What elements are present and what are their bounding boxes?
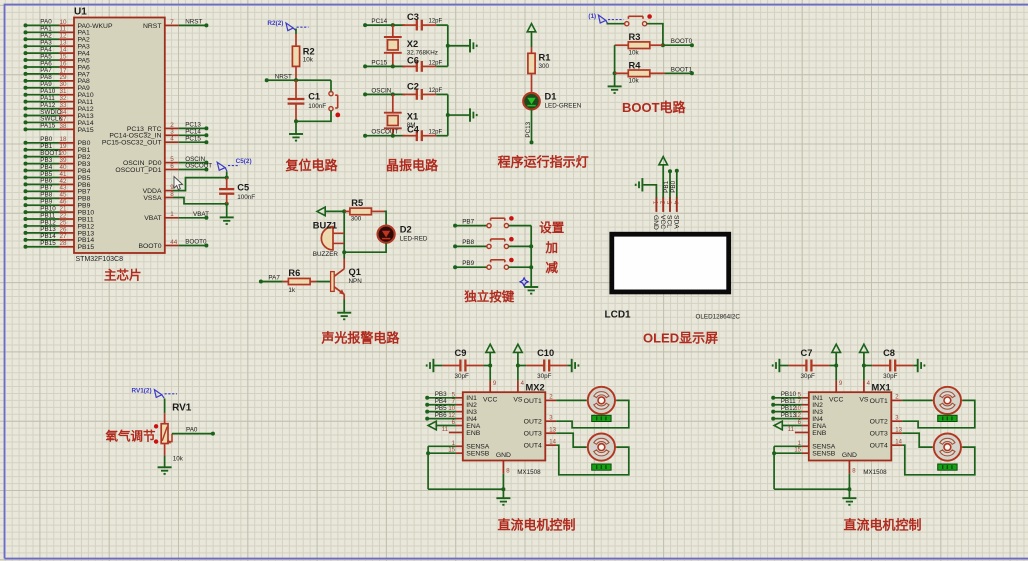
junction R4 left	[613, 71, 617, 75]
motor A (DC motor)	[586, 387, 616, 414]
ground below C5	[220, 216, 234, 218]
wire OLED GND pin to ground	[643, 185, 656, 199]
U1 pin 29 PA8 / wire net PA8	[24, 74, 91, 85]
MX2 pin 15 SENSB	[428, 448, 463, 454]
svg-text:15: 15	[448, 448, 455, 454]
MX2 pin 2 OUT1	[545, 395, 556, 401]
svg-text:BUZ1: BUZ1	[313, 220, 337, 230]
MX1 pin 1 SENSA	[774, 441, 809, 447]
wire VCC	[662, 165, 664, 199]
wire emitter to ground	[343, 300, 345, 313]
U1 pin 41 PB5 / wire net PB5	[24, 171, 91, 182]
wire GND pin down	[848, 474, 850, 499]
junction bus mid	[446, 44, 450, 48]
svg-text:7: 7	[170, 19, 174, 26]
capacitor C1 100nF	[288, 80, 327, 121]
U1 pin 38 PA15 / wire net PA15	[24, 123, 94, 134]
wire C5 to ground	[226, 204, 228, 218]
wire OUT1 to motor A	[556, 399, 586, 401]
svg-text:X2: X2	[407, 39, 418, 49]
svg-text:R2(2): R2(2)	[267, 20, 283, 27]
U1 pin 46 PB9 / wire net PB9	[24, 198, 91, 209]
junction crystal top	[391, 92, 395, 96]
wire key PB9 to bus	[509, 266, 532, 268]
wire OUT1 to motor A	[902, 399, 932, 401]
junction SENSB	[772, 451, 776, 455]
node SCL top	[668, 169, 672, 173]
LCD1 display body	[612, 234, 729, 292]
ground reset circuit	[289, 133, 303, 135]
svg-text:GND: GND	[496, 452, 511, 459]
svg-text:RV1: RV1	[172, 402, 192, 413]
ground alarm	[337, 312, 351, 314]
wire button bottom to C1 bottom	[296, 111, 331, 122]
svg-text:VCC: VCC	[829, 397, 843, 404]
svg-text:14: 14	[895, 439, 902, 445]
U1 pin 3 PC14-OSC32_IN / wire net PC14	[109, 129, 208, 140]
svg-text:VCC: VCC	[659, 215, 666, 229]
wire C right	[829, 365, 836, 367]
U1 pin 45 PB8 / wire net PB8	[24, 192, 91, 203]
ground left of C	[432, 359, 434, 372]
MX2 pin 3 OUT2	[545, 415, 556, 421]
svg-text:OUT4: OUT4	[870, 443, 888, 450]
power terminal left alarm	[317, 207, 325, 216]
svg-text:12pF: 12pF	[429, 130, 443, 136]
svg-text:ENB: ENB	[812, 430, 826, 437]
MX1 pin 4 VS	[864, 381, 871, 393]
MX2 pin 11 ENB stub	[442, 427, 463, 433]
svg-text:C3: C3	[407, 12, 419, 22]
blue marker artifact	[520, 278, 528, 286]
junction node R2/C1	[294, 78, 298, 82]
svg-text:SENSB: SENSB	[812, 451, 836, 458]
wire net PC14	[365, 24, 405, 26]
MX1 pin 3 OUT2	[891, 415, 902, 421]
wire RV1 to ground	[164, 455, 166, 467]
wire to ground reset	[295, 121, 297, 134]
wire GND pin down	[502, 474, 504, 499]
U1 pin 40 PB4 / wire net PB4	[24, 164, 91, 175]
svg-text:PB15: PB15	[78, 244, 95, 251]
svg-text:主芯片: 主芯片	[104, 268, 142, 283]
svg-text:10k: 10k	[629, 50, 640, 57]
svg-text:OUT4: OUT4	[524, 443, 542, 450]
wire SDA	[676, 171, 678, 199]
ground driver	[496, 497, 510, 499]
svg-text:10k: 10k	[303, 57, 314, 64]
svg-text:NRST: NRST	[185, 19, 202, 26]
wire C right-cap left	[518, 365, 526, 367]
pin names inside	[466, 395, 542, 459]
svg-text:NPN: NPN	[349, 278, 363, 285]
crystal X2	[384, 25, 438, 66]
wire C6 to bus	[436, 65, 448, 67]
svg-text:PC13: PC13	[525, 121, 532, 137]
svg-text:VCC: VCC	[483, 397, 497, 404]
U1 pin 44 BOOT0 / wire net BOOT0	[138, 239, 208, 250]
U1 pin 31 PA10 / wire net PA10	[24, 88, 94, 99]
svg-text:C10: C10	[537, 348, 554, 358]
wire PB9 to key	[455, 266, 487, 268]
wire left bus R3-R4-ground	[614, 45, 616, 86]
U1 pin 8 VSSA / wire to C5 bottom	[143, 191, 228, 206]
motor A indicator box	[938, 415, 957, 421]
motor A indicator box	[592, 415, 611, 421]
wire OUT2 to motor A return	[556, 400, 629, 427]
svg-text:(1): (1)	[588, 13, 596, 20]
push button reset (vertical)	[329, 92, 340, 118]
svg-text:PB0: PB0	[670, 180, 677, 192]
svg-text:OSCOUT_PD1: OSCOUT_PD1	[115, 167, 161, 174]
svg-text:LED-GREEN: LED-GREEN	[545, 103, 582, 110]
wire OUT3 to motor B	[556, 433, 586, 447]
resistor R4 10k	[615, 60, 665, 84]
svg-text:R4: R4	[629, 60, 642, 70]
ground RV1	[158, 466, 172, 468]
wire PB7 to key	[455, 225, 487, 227]
capacitor C8 30pF	[872, 348, 913, 380]
svg-text:VBAT: VBAT	[144, 215, 161, 222]
U1 pin 14 PA4 / wire net PA4	[24, 46, 91, 57]
wire OUT2 to motor A return	[902, 400, 975, 427]
wire R6 to Q1 base	[317, 281, 331, 283]
transistor Q1 NPN	[331, 259, 363, 300]
motor B indicator box	[938, 464, 957, 470]
wire C left	[433, 365, 442, 367]
svg-text:12pF: 12pF	[429, 88, 443, 94]
svg-text:晶振电路: 晶振电路	[386, 158, 439, 173]
svg-text:GND: GND	[652, 215, 659, 230]
svg-text:OUT2: OUT2	[524, 419, 542, 426]
svg-text:BOOT1: BOOT1	[671, 66, 693, 73]
svg-text:ENB: ENB	[466, 430, 480, 437]
U1 pin 19 PB1 / wire net PB1	[24, 143, 91, 154]
junction bus mid	[446, 113, 450, 117]
capacitor C7 30pF	[788, 348, 829, 380]
svg-text:1k: 1k	[288, 287, 296, 294]
junction crystal bottom	[391, 134, 395, 138]
junction R3 right	[661, 43, 665, 47]
svg-text:OSCOUT: OSCOUT	[185, 163, 212, 170]
svg-text:10k: 10k	[173, 456, 184, 463]
terminal RV1(2) default	[154, 390, 161, 398]
wire SCL	[669, 171, 671, 198]
wire power to R1	[531, 32, 533, 47]
svg-text:VS: VS	[859, 397, 869, 404]
wire OUT4 to motor B return	[902, 445, 975, 475]
svg-text:OLED显示屏: OLED显示屏	[643, 330, 718, 345]
svg-text:C4: C4	[407, 125, 420, 135]
capacitor C9 30pF	[442, 348, 483, 380]
resistor R3 10k	[615, 32, 663, 56]
ground driver	[842, 497, 856, 499]
MX1 pin 9 VCC	[836, 381, 843, 393]
svg-text:LED-RED: LED-RED	[400, 235, 428, 242]
ground right of C	[571, 359, 573, 372]
junction VCC/C-left	[834, 364, 838, 368]
svg-text:4: 4	[170, 136, 174, 143]
svg-text:C5(2): C5(2)	[236, 158, 252, 165]
node PB9 terminal	[453, 265, 457, 269]
wire OUT3 to motor B	[902, 433, 932, 447]
wire R5 to D2	[384, 211, 386, 225]
motor A (DC motor)	[932, 387, 962, 414]
svg-text:OSCIN: OSCIN	[371, 87, 391, 94]
svg-text:100nF: 100nF	[237, 194, 255, 201]
MX1 pin 2 OUT1	[891, 395, 902, 401]
wire key PB8 to bus	[509, 245, 532, 247]
svg-text:PA15: PA15	[78, 127, 94, 134]
svg-text:D2: D2	[400, 225, 412, 235]
svg-text:复位电路: 复位电路	[285, 158, 339, 173]
junction crystal top	[391, 23, 395, 27]
svg-text:OUT1: OUT1	[870, 398, 888, 405]
U1 pin 25 PB12 / wire net PB12	[24, 219, 95, 230]
MX2 pin 12 IN4 / wire net PB6	[425, 412, 463, 421]
node PB7 terminal	[453, 224, 457, 228]
ground keys	[524, 286, 538, 288]
ground crystal	[469, 39, 471, 52]
svg-text:44: 44	[170, 239, 178, 246]
wire D1 to PC13 node	[531, 110, 533, 143]
wire PB8 to key	[455, 245, 487, 247]
svg-text:C1: C1	[308, 92, 320, 102]
wire buzzer vertical branch	[343, 211, 345, 252]
U1 pin 7 NRST / wire net NRST	[143, 19, 208, 30]
resistor R5 300	[344, 198, 384, 222]
push button key PB8	[487, 237, 514, 249]
svg-text:12: 12	[794, 413, 801, 419]
node PA7 terminal	[259, 280, 263, 284]
svg-text:PC15-OSC32_OUT: PC15-OSC32_OUT	[102, 140, 162, 147]
wire VS vertical	[517, 352, 519, 380]
svg-text:C9: C9	[455, 348, 467, 358]
svg-text:VBAT: VBAT	[193, 211, 209, 218]
svg-text:氧气调节: 氧气调节	[105, 428, 157, 443]
svg-text:NRST: NRST	[143, 23, 162, 30]
potentiometer RV1 10k	[154, 402, 192, 462]
terminal C5(2) default	[217, 162, 225, 170]
U1 pin 22 PB11 / wire net PB11	[24, 212, 94, 223]
svg-text:R2: R2	[303, 46, 315, 56]
wire terminal to R2	[295, 29, 297, 35]
MX2 pin 8 GND	[503, 461, 510, 475]
wire bus to ground	[448, 45, 470, 47]
svg-text:30pF: 30pF	[455, 373, 470, 380]
node OSCIN terminal	[363, 92, 367, 96]
U1 pin 20 PB2 / wire net BOOT1	[24, 150, 91, 161]
svg-text:SCL: SCL	[666, 215, 673, 228]
power terminal VS	[860, 344, 869, 352]
svg-text:LCD1: LCD1	[605, 310, 632, 321]
U1 pin 34 PA13 / wire net SWDIO	[24, 109, 94, 120]
U1 pin 13 PA3 / wire net PA3	[24, 39, 91, 50]
svg-text:10: 10	[448, 406, 455, 412]
svg-text:加: 加	[545, 240, 559, 255]
capacitor C4 12pF	[402, 125, 442, 141]
push button key PB7	[487, 216, 514, 228]
MX1 pin 8 GND	[849, 461, 856, 475]
MX2 pin 5 IN1 / wire net PB3	[425, 391, 463, 400]
svg-text:BOOT电路: BOOT电路	[622, 100, 687, 115]
wire button to R3 branch	[647, 24, 663, 46]
wire bottom to GND pin	[428, 488, 503, 490]
wire C right	[483, 365, 490, 367]
wire OUT4 to motor B return	[556, 445, 629, 475]
svg-text:减: 减	[546, 260, 559, 275]
svg-text:C7: C7	[801, 348, 813, 358]
svg-text:R6: R6	[288, 268, 300, 278]
LED D2 LED-RED	[378, 225, 428, 243]
svg-text:10k: 10k	[629, 78, 640, 85]
node SDA top	[675, 169, 679, 173]
ground right of C	[917, 359, 919, 372]
push button BOOT	[625, 22, 629, 26]
U1 pin 2 PC13_RTC / wire net PC13	[127, 122, 209, 133]
node PC13 end	[530, 140, 534, 144]
wire bus to ground	[448, 114, 470, 116]
U1 pin 11 PA1 / wire net PA1	[24, 26, 91, 37]
svg-text:OUT3: OUT3	[524, 431, 542, 438]
svg-text:6: 6	[170, 163, 174, 170]
junction VCC/C-left	[488, 364, 492, 368]
power terminal up indicator	[527, 24, 536, 32]
ground left of C	[778, 359, 780, 372]
node PB8 terminal	[453, 244, 457, 248]
U1 pin 17 PA7 / wire net PA7	[24, 67, 91, 78]
junction bus PB9	[529, 265, 533, 269]
MX2 pin 6 ENA with power terminal	[428, 420, 463, 430]
node PC15 terminal	[363, 64, 367, 68]
wire C4 to bus	[436, 135, 448, 137]
IC U1 STM32F103C8 body	[74, 18, 165, 254]
power terminal up OLED VCC	[659, 157, 668, 165]
power terminal VCC	[832, 344, 841, 352]
svg-text:C6: C6	[407, 55, 419, 65]
svg-text:PB9: PB9	[462, 260, 474, 267]
junction VS/C-right	[516, 364, 520, 368]
capacitor C10 30pF	[526, 348, 567, 380]
svg-text:1: 1	[170, 211, 174, 218]
svg-text:OUT1: OUT1	[524, 398, 542, 405]
ground OLED (rotated left)	[641, 178, 643, 191]
svg-text:BUZZER: BUZZER	[313, 251, 339, 258]
wire C2 to bus	[436, 93, 448, 95]
U1 pin 42 PB6 / wire net PB6	[24, 178, 91, 189]
svg-text:STM32F103C8: STM32F103C8	[76, 256, 124, 263]
wire SENS bus down	[773, 446, 775, 489]
capacitor C2 12pF	[402, 81, 442, 99]
svg-text:300: 300	[539, 63, 550, 70]
MX1 pin 10 IN3 / wire net PB12	[771, 405, 809, 414]
U1 pin 43 PB7 / wire net PB7	[24, 185, 91, 196]
svg-text:Q1: Q1	[349, 267, 361, 277]
svg-text:GND: GND	[842, 452, 857, 459]
wire VCC vertical	[489, 352, 491, 380]
svg-text:PB8: PB8	[462, 239, 474, 246]
LCD1 OLED12864I2C pins	[652, 197, 680, 230]
IC MX1 MX1508 body	[809, 392, 892, 460]
MX2 pin 4 VS	[518, 381, 525, 393]
capacitor C3 12pF	[402, 12, 442, 30]
svg-text:MX1: MX1	[872, 382, 891, 392]
node PC14 terminal	[363, 23, 367, 27]
push button key PB9	[487, 258, 514, 270]
MX2 pin 9 VCC	[490, 381, 497, 393]
svg-text:直流电机控制: 直流电机控制	[498, 518, 576, 533]
junction R5 left / buzzer top	[342, 209, 346, 213]
svg-text:BOOT0: BOOT0	[185, 239, 207, 246]
svg-text:28: 28	[60, 240, 68, 247]
MX1 pin 13 OUT3	[891, 427, 902, 433]
svg-text:MX1508: MX1508	[863, 469, 887, 476]
resistor R6 1k	[283, 268, 317, 294]
svg-text:PB15: PB15	[40, 240, 56, 247]
node NRST left terminal	[265, 78, 269, 82]
MX1 pin 12 IN4 / wire net PB13	[771, 412, 809, 421]
LED D1 LED-GREEN	[523, 92, 581, 110]
MX2 pin 14 OUT4	[545, 439, 556, 445]
pin names inside	[812, 395, 888, 459]
MX2 pin 10 IN3 / wire net PB5	[425, 405, 463, 414]
svg-text:12pF: 12pF	[429, 60, 443, 66]
svg-text:D1: D1	[545, 92, 557, 102]
capacitor C5 100nF	[219, 178, 255, 204]
wire net BOOT0	[663, 44, 692, 46]
node BOOT0	[690, 43, 694, 47]
svg-text:30pF: 30pF	[537, 373, 552, 380]
MX1 pin 11 ENB stub	[788, 427, 809, 433]
MX1 pin 15 SENSB	[774, 448, 809, 454]
wire terminal to RV1	[164, 399, 166, 414]
wire C right-cap right	[567, 365, 572, 367]
svg-text:13: 13	[895, 427, 902, 433]
wire net PA0	[172, 433, 213, 435]
U1 pin 27 PB14 / wire net PB14	[24, 233, 95, 244]
svg-text:BOOT0: BOOT0	[138, 243, 161, 250]
wire terminal to boot button	[607, 23, 625, 25]
wire SENS bus down	[427, 446, 429, 489]
motor B (DC motor)	[932, 434, 962, 461]
wire keys right bus	[530, 226, 532, 287]
MX2 pin 7 IN2 / wire net PB4	[425, 398, 463, 407]
svg-text:30pF: 30pF	[801, 373, 816, 380]
buzzer BUZ1	[313, 220, 344, 258]
U1 pin 10 PA0-WKUP / wire net PA0	[24, 19, 113, 30]
junction GND bottom	[847, 487, 851, 491]
U1 pin 16 PA6 / wire net PA6	[24, 60, 91, 71]
junction crystal bottom	[391, 64, 395, 68]
wire D2 bottom to collector node	[344, 243, 386, 252]
wire collector to node	[343, 252, 345, 258]
svg-text:VS: VS	[513, 397, 523, 404]
wire net OSCIN	[365, 93, 405, 95]
MX2 pin 1 SENSA	[428, 441, 463, 447]
svg-text:11: 11	[442, 427, 449, 433]
U1 pin 4 PC15-OSC32_OUT / wire net PC15	[102, 135, 209, 146]
crystal X1	[384, 94, 418, 135]
svg-text:U1: U1	[74, 7, 87, 18]
svg-text:C8: C8	[883, 348, 895, 358]
MX1 pin 6 ENA with power terminal	[774, 420, 809, 430]
IC MX2 MX1508 body	[463, 392, 546, 460]
svg-text:MX1508: MX1508	[517, 469, 541, 476]
svg-text:C5: C5	[237, 183, 249, 193]
MX2 pin 13 OUT3	[545, 427, 556, 433]
svg-text:PA7: PA7	[268, 274, 280, 281]
svg-text:38: 38	[60, 123, 68, 130]
